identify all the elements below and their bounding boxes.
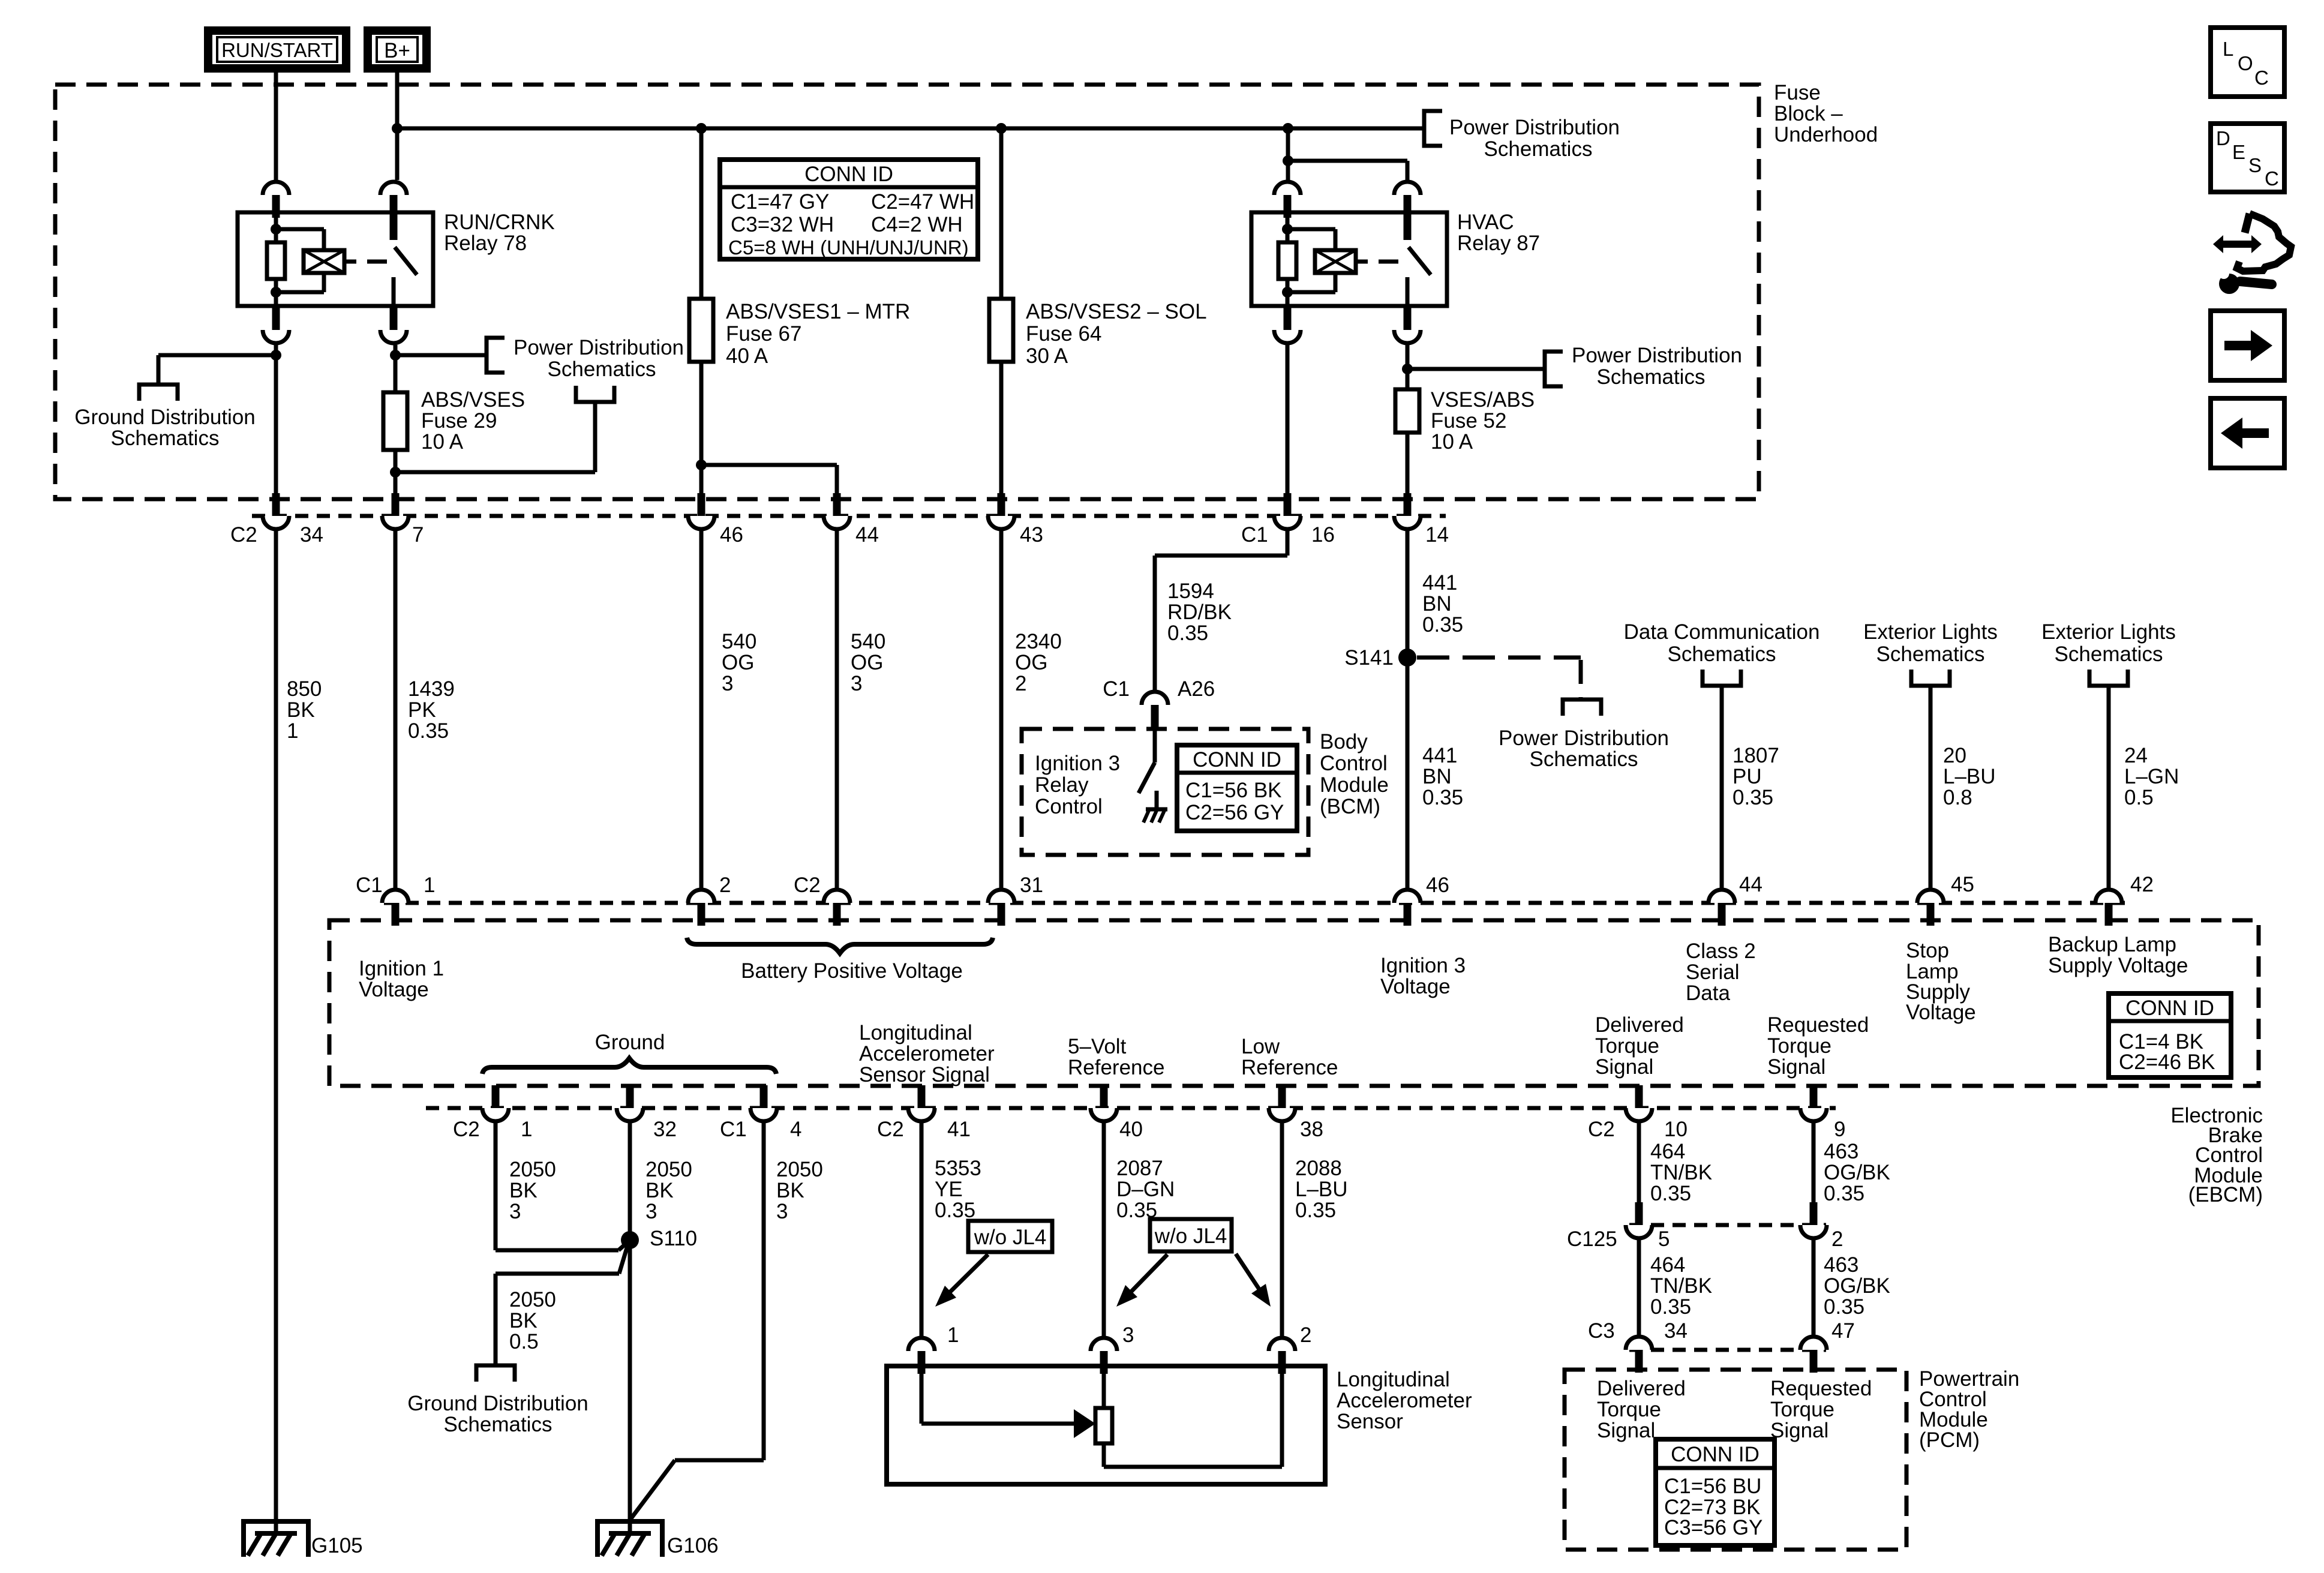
- svg-text:10: 10: [1664, 1118, 1688, 1141]
- svg-text:C3=32 WH: C3=32 WH: [731, 213, 834, 236]
- svg-text:Schematics: Schematics: [1668, 643, 1776, 666]
- off-page ref exterior lights (stop lamp): [1911, 670, 1950, 686]
- svg-text:3: 3: [722, 672, 733, 695]
- svg-text:2088: 2088: [1295, 1157, 1342, 1180]
- svg-text:Module: Module: [1320, 773, 1389, 797]
- BCM switch to ground: [1139, 728, 1157, 808]
- ground G106: [597, 1521, 719, 1557]
- wire 2340 OG: [999, 531, 1004, 888]
- svg-text:Underhood: Underhood: [1774, 123, 1878, 146]
- wire fuse52 down: [1406, 433, 1410, 493]
- connector row2 pin 2: [688, 890, 714, 926]
- connector row2 pin 2b: [824, 890, 850, 926]
- longitudinal accelerometer sensor box: [887, 1366, 1325, 1484]
- label body control module: [1320, 730, 1389, 818]
- connector arc relay78 pin left: [263, 182, 289, 218]
- relay RUN/CRNK 78 box: [238, 212, 433, 306]
- svg-text:0.35: 0.35: [935, 1199, 975, 1222]
- svg-text:Torque: Torque: [1767, 1034, 1831, 1058]
- svg-text:L–BU: L–BU: [1943, 765, 1996, 788]
- wire 540 OG (right): [835, 531, 839, 888]
- svg-text:0.5: 0.5: [509, 1330, 539, 1353]
- svg-text:850: 850: [287, 677, 322, 701]
- svg-text:G105: G105: [311, 1534, 363, 1557]
- svg-text:0.35: 0.35: [1422, 786, 1463, 809]
- svg-text:Low: Low: [1241, 1035, 1280, 1058]
- off-page ref power distribution (S141): [1563, 700, 1601, 716]
- connector row3 pin 1: [482, 1085, 509, 1121]
- svg-text:463: 463: [1824, 1253, 1858, 1277]
- labels C3 pins: [1588, 1319, 1855, 1343]
- label exterior lights schematics (backup): [2041, 620, 2176, 666]
- wire 2087 D-GN: [1102, 1123, 1106, 1336]
- svg-text:ABS/VSES: ABS/VSES: [421, 388, 525, 412]
- svg-text:4: 4: [790, 1118, 801, 1141]
- svg-text:9: 9: [1834, 1118, 1845, 1141]
- connector row2 pin 46: [1394, 890, 1421, 926]
- connector row2 pin 44: [1709, 890, 1735, 926]
- label wire 24 L-GN 0.5: [2124, 744, 2179, 809]
- label wire 2050 BK 0.5: [509, 1288, 556, 1353]
- svg-text:0.5: 0.5: [2124, 786, 2154, 809]
- connector row3 pin 41: [908, 1085, 935, 1121]
- svg-text:w/o JL4: w/o JL4: [1154, 1224, 1227, 1248]
- svg-text:G106: G106: [667, 1534, 719, 1557]
- wire relay78 pin34 down: [271, 345, 281, 493]
- body control module dashed box: [1022, 729, 1308, 855]
- relay78 switch: [390, 212, 418, 306]
- svg-text:10 A: 10 A: [1431, 430, 1473, 454]
- svg-text:Reference: Reference: [1241, 1056, 1338, 1079]
- svg-text:Fuse 29: Fuse 29: [421, 409, 497, 433]
- svg-text:Fuse 64: Fuse 64: [1026, 322, 1101, 346]
- fuse block - underhood dashed box: [55, 85, 1759, 499]
- label wire 463 OG/BK 0.35 (lower): [1824, 1253, 1890, 1319]
- wire 1594 RD/BK: [1155, 531, 1287, 690]
- label data communication schematics: [1624, 620, 1820, 666]
- svg-text:Requested: Requested: [1770, 1377, 1872, 1400]
- label power distribution schematics (S141): [1499, 727, 1669, 771]
- svg-text:Requested: Requested: [1767, 1013, 1869, 1037]
- svg-text:0.35: 0.35: [1295, 1199, 1336, 1222]
- svg-text:BK: BK: [509, 1309, 538, 1332]
- connector arc relay78 out left: [263, 307, 289, 343]
- wire bus to fuse64: [999, 128, 1004, 299]
- svg-text:TN/BK: TN/BK: [1650, 1274, 1712, 1298]
- connector arc relay78 pin right: [380, 182, 407, 218]
- connector row3 pin 4: [750, 1085, 777, 1121]
- electronic brake control module dashed box: [329, 920, 2259, 1086]
- svg-text:Serial: Serial: [1686, 960, 1739, 984]
- label wire 441 BN 0.35 (lower): [1422, 744, 1463, 809]
- powertrain control module dashed box: [1565, 1370, 1906, 1550]
- label wire 1807 PU 0.35: [1733, 744, 1779, 809]
- icon box arrow left: [2211, 398, 2284, 468]
- svg-text:C1: C1: [356, 873, 383, 897]
- svg-text:Block –: Block –: [1774, 102, 1843, 125]
- label wire 463 OG/BK 0.35 (upper): [1824, 1140, 1890, 1205]
- arrow w/o JL4 right-1: [1116, 1254, 1167, 1307]
- svg-text:Ground Distribution: Ground Distribution: [407, 1392, 588, 1415]
- label class 2 serial data: [1686, 939, 1756, 1005]
- label delivered torque signal (PCM): [1597, 1377, 1686, 1442]
- svg-text:46: 46: [1426, 873, 1449, 897]
- svg-text:C2=56 GY: C2=56 GY: [1185, 801, 1284, 824]
- svg-text:ABS/VSES1 – MTR: ABS/VSES1 – MTR: [726, 300, 910, 323]
- label wire 464 TN/BK 0.35 (upper): [1650, 1140, 1712, 1205]
- svg-text:C5=8 WH (UNH/UNJ/UNR): C5=8 WH (UNH/UNJ/UNR): [728, 236, 969, 259]
- svg-text:RUN/CRNK: RUN/CRNK: [444, 211, 555, 234]
- label power distribution schematics (relay87): [1572, 344, 1742, 389]
- svg-text:Control: Control: [1320, 752, 1388, 775]
- label longitudinal accelerometer sensor: [1337, 1368, 1472, 1433]
- label relay HVAC 87: [1457, 211, 1540, 255]
- svg-text:Schematics: Schematics: [1530, 748, 1638, 771]
- svg-text:0.35: 0.35: [408, 719, 449, 743]
- svg-text:(BCM): (BCM): [1320, 795, 1380, 818]
- label wire 850 BK 1: [287, 677, 322, 743]
- svg-text:C4=2 WH: C4=2 WH: [871, 213, 963, 236]
- svg-text:BK: BK: [287, 698, 315, 722]
- svg-text:Delivered: Delivered: [1597, 1377, 1686, 1400]
- svg-text:Voltage: Voltage: [1906, 1001, 1976, 1024]
- flag box w/o JL4 (left): [968, 1221, 1052, 1252]
- svg-text:Backup Lamp: Backup Lamp: [2048, 933, 2176, 956]
- wire 463 OG/BK (lower): [1812, 1240, 1816, 1335]
- connector arc A26: [1142, 692, 1168, 728]
- svg-text:Longitudinal: Longitudinal: [1337, 1368, 1450, 1391]
- svg-text:0.35: 0.35: [1167, 622, 1208, 645]
- svg-text:Power Distribution: Power Distribution: [1499, 727, 1669, 750]
- svg-text:L–BU: L–BU: [1295, 1178, 1348, 1201]
- svg-text:C2: C2: [1588, 1118, 1615, 1141]
- svg-text:C: C: [2265, 167, 2279, 190]
- label wire 2050 BK 3 (pin32): [645, 1158, 692, 1223]
- svg-text:OG: OG: [722, 651, 754, 674]
- label electronic brake control module: [2170, 1104, 2263, 1206]
- labels row3 pins: [453, 1118, 1845, 1141]
- off-page ref power distribution (fuse29): [576, 386, 614, 402]
- label battery positive voltage: [741, 959, 963, 983]
- svg-text:42: 42: [2130, 873, 2154, 896]
- svg-text:2340: 2340: [1015, 630, 1062, 653]
- svg-text:ABS/VSES2 – SOL: ABS/VSES2 – SOL: [1026, 300, 1207, 323]
- svg-text:C2: C2: [230, 523, 257, 547]
- svg-text:CONN ID: CONN ID: [2125, 996, 2214, 1020]
- connector row2 pin 1: [382, 890, 409, 926]
- label low reference: [1241, 1035, 1338, 1079]
- wire 464 TN/BK (upper): [1637, 1123, 1641, 1202]
- svg-text:1439: 1439: [408, 677, 455, 701]
- label requested torque signal (EBCM): [1767, 1013, 1869, 1079]
- svg-text:2050: 2050: [776, 1158, 823, 1181]
- connector row1 pin 43: [988, 493, 1014, 529]
- svg-text:Schematics: Schematics: [1597, 365, 1706, 389]
- wire fuse67 down: [696, 362, 707, 493]
- label wire 2087 D-GN 0.35: [1116, 1157, 1175, 1222]
- svg-text:BK: BK: [776, 1179, 804, 1202]
- power feed box RUN/START: [208, 31, 346, 68]
- svg-text:OG/BK: OG/BK: [1824, 1274, 1890, 1298]
- svg-text:5353: 5353: [935, 1157, 981, 1180]
- svg-text:34: 34: [1664, 1319, 1688, 1343]
- off-page ref ground distribution (S110): [476, 1365, 515, 1382]
- svg-text:34: 34: [300, 523, 323, 547]
- svg-text:Accelerometer: Accelerometer: [859, 1042, 995, 1065]
- svg-text:L–GN: L–GN: [2124, 765, 2179, 788]
- label 5-volt reference: [1068, 1035, 1164, 1079]
- wire fuse29 down: [390, 450, 401, 493]
- label fuse 67: [726, 300, 910, 368]
- svg-text:464: 464: [1650, 1140, 1685, 1163]
- svg-text:Fuse: Fuse: [1774, 81, 1821, 104]
- svg-text:C2=46 BK: C2=46 BK: [2119, 1050, 2215, 1074]
- off-page ref ground distribution: [139, 385, 178, 401]
- labels row1 pins: [230, 523, 1449, 547]
- svg-text:Voltage: Voltage: [359, 978, 429, 1001]
- connector dashed line row1: [252, 514, 1446, 518]
- wire fuse29 bypass to power distribution: [395, 402, 595, 472]
- connector row3 pin 32: [617, 1085, 643, 1121]
- svg-text:C1: C1: [1241, 523, 1268, 547]
- icon box DESC: [2211, 124, 2284, 192]
- svg-text:C2: C2: [794, 873, 821, 897]
- svg-text:RD/BK: RD/BK: [1167, 601, 1232, 624]
- svg-text:OG: OG: [851, 651, 883, 674]
- label wire 5353 YE 0.35: [935, 1157, 981, 1222]
- wire RUN/START down to relay 78: [274, 73, 278, 180]
- svg-text:464: 464: [1650, 1253, 1685, 1277]
- connector C125 pin2: [1800, 1202, 1827, 1238]
- svg-text:CONN ID: CONN ID: [1671, 1443, 1759, 1466]
- connector row3 pin 38: [1269, 1085, 1295, 1121]
- svg-text:C2=47 WH: C2=47 WH: [871, 190, 974, 214]
- svg-text:Signal: Signal: [1767, 1055, 1825, 1079]
- svg-text:D: D: [2216, 127, 2230, 149]
- svg-text:441: 441: [1422, 571, 1457, 595]
- fuse ABS/VSES1 67: [689, 299, 713, 362]
- fuse ABS/VSES 29: [383, 392, 407, 450]
- svg-text:41: 41: [947, 1118, 971, 1141]
- svg-text:0.35: 0.35: [1422, 613, 1463, 637]
- connector row1 pin 44: [824, 493, 850, 529]
- svg-text:CONN ID: CONN ID: [1193, 748, 1281, 772]
- wire bus to fuse67: [699, 128, 704, 299]
- svg-text:24: 24: [2124, 744, 2148, 767]
- svg-text:Schematics: Schematics: [111, 427, 220, 450]
- label ignition 3 voltage: [1380, 954, 1466, 998]
- svg-text:44: 44: [1739, 873, 1762, 896]
- svg-text:A26: A26: [1178, 677, 1215, 701]
- connector arc relay87 out right: [1394, 307, 1421, 343]
- svg-text:2050: 2050: [509, 1288, 556, 1311]
- splice S110: [621, 1227, 697, 1250]
- svg-text:w/o JL4: w/o JL4: [974, 1226, 1047, 1249]
- off-page ref exterior lights (backup): [2089, 670, 2128, 686]
- svg-text:TN/BK: TN/BK: [1650, 1161, 1712, 1184]
- svg-text:32: 32: [653, 1118, 677, 1141]
- svg-text:3: 3: [851, 672, 862, 695]
- svg-text:20: 20: [1943, 744, 1966, 767]
- wire 1807 PU: [1720, 688, 1724, 888]
- connector arc relay87 pin left: [1274, 182, 1301, 218]
- conn id table (EBCM): [2109, 993, 2231, 1077]
- svg-text:Stop: Stop: [1906, 939, 1949, 962]
- svg-text:Reference: Reference: [1068, 1056, 1164, 1079]
- svg-text:B+: B+: [384, 39, 410, 62]
- svg-text:16: 16: [1311, 523, 1335, 547]
- wire 20 L-BU: [1929, 688, 1933, 888]
- svg-text:Signal: Signal: [1595, 1055, 1653, 1079]
- connector arc relay87 pin right: [1394, 182, 1421, 218]
- wire 24 L-GN: [2107, 688, 2111, 888]
- svg-text:C1=56 BK: C1=56 BK: [1185, 779, 1282, 802]
- svg-text:Torque: Torque: [1595, 1034, 1659, 1058]
- svg-text:540: 540: [722, 630, 756, 653]
- labels C1 A26: [1103, 677, 1215, 701]
- svg-text:C125: C125: [1567, 1227, 1617, 1251]
- svg-text:14: 14: [1425, 523, 1449, 547]
- svg-text:VSES/ABS: VSES/ABS: [1431, 388, 1535, 412]
- connector dashed line row3: [426, 1106, 1836, 1110]
- svg-text:40: 40: [1119, 1118, 1143, 1141]
- svg-text:BK: BK: [645, 1179, 674, 1202]
- svg-text:Battery Positive Voltage: Battery Positive Voltage: [741, 959, 963, 983]
- off-page ref power distribution (top right): [1424, 111, 1442, 146]
- svg-text:RUN/START: RUN/START: [221, 39, 333, 61]
- svg-text:2: 2: [1831, 1227, 1843, 1251]
- connector dashed line C3: [1629, 1348, 1826, 1352]
- svg-text:PK: PK: [408, 698, 436, 722]
- svg-text:L: L: [2223, 38, 2233, 60]
- svg-text:Ignition 1: Ignition 1: [359, 957, 444, 980]
- connector arc relay87 out left: [1274, 307, 1301, 343]
- arrow w/o JL4 left: [935, 1254, 988, 1307]
- svg-text:3: 3: [1122, 1323, 1134, 1347]
- svg-text:C2: C2: [453, 1118, 480, 1141]
- wire 1439 PK: [394, 531, 398, 888]
- relay87 coil solenoid: [1287, 229, 1398, 292]
- svg-text:Longitudinal: Longitudinal: [859, 1021, 972, 1044]
- svg-text:Schematics: Schematics: [548, 358, 656, 381]
- svg-text:2: 2: [719, 873, 731, 897]
- wire bus to HVAC relay pins: [1283, 128, 1407, 180]
- svg-text:C1: C1: [1103, 677, 1130, 701]
- label ground distribution schematics (top left): [74, 406, 256, 450]
- wire branch to ground distribution: [158, 355, 276, 385]
- label powertrain control module: [1919, 1367, 2019, 1452]
- icon box arrow right: [2211, 311, 2284, 380]
- wire 463 OG/BK (upper): [1812, 1123, 1816, 1202]
- icon box LOC: [2211, 28, 2284, 97]
- svg-text:Relay 78: Relay 78: [444, 232, 527, 255]
- svg-text:S110: S110: [650, 1227, 697, 1250]
- connector row1 pin 14: [1394, 493, 1421, 529]
- svg-text:30 A: 30 A: [1026, 344, 1068, 368]
- svg-text:Torque: Torque: [1770, 1398, 1834, 1421]
- svg-text:5–Volt: 5–Volt: [1068, 1035, 1127, 1058]
- connector row3 pin 9: [1800, 1085, 1827, 1121]
- label wire 2340 OG 2: [1015, 630, 1062, 695]
- off-page ref data communication: [1703, 670, 1741, 686]
- relay78 coil resistor: [267, 212, 285, 306]
- svg-text:D–GN: D–GN: [1116, 1178, 1175, 1201]
- wire branch to pin44: [701, 465, 837, 493]
- brace ground: [482, 1058, 776, 1074]
- wire B+ down and main bus: [392, 73, 1422, 180]
- svg-text:CONN ID: CONN ID: [804, 163, 893, 186]
- svg-text:Fuse 52: Fuse 52: [1431, 409, 1506, 433]
- connector row2 pin 42: [2095, 890, 2122, 926]
- svg-text:C1=56 BU: C1=56 BU: [1664, 1475, 1761, 1498]
- svg-text:1: 1: [424, 873, 435, 897]
- svg-text:Exterior Lights: Exterior Lights: [2041, 620, 2176, 644]
- svg-text:C1: C1: [720, 1118, 747, 1141]
- svg-text:E: E: [2232, 141, 2245, 163]
- connector C3 pin34: [1626, 1337, 1652, 1373]
- wire 2050 BK pin32 (to G106): [628, 1123, 632, 1533]
- svg-text:Torque: Torque: [1597, 1398, 1661, 1421]
- label wire 2050 BK 3 (pin4): [776, 1158, 823, 1223]
- svg-text:BK: BK: [509, 1179, 538, 1202]
- svg-text:0.35: 0.35: [1650, 1182, 1691, 1205]
- svg-text:BN: BN: [1422, 765, 1452, 788]
- label requested torque signal (PCM): [1770, 1377, 1872, 1442]
- svg-text:Sensor: Sensor: [1337, 1410, 1403, 1433]
- wire 2088 L-BU: [1280, 1123, 1284, 1336]
- label longitudinal accelerometer sensor signal: [859, 1021, 995, 1086]
- connector C3 pin47: [1800, 1337, 1827, 1373]
- svg-text:46: 46: [720, 523, 743, 547]
- svg-text:Sensor Signal: Sensor Signal: [859, 1063, 990, 1086]
- svg-text:Ignition 3: Ignition 3: [1380, 954, 1466, 977]
- svg-text:Body: Body: [1320, 730, 1368, 754]
- wire branch to power distribution (relay87): [1407, 367, 1545, 371]
- label wire 540 OG 3 (right): [851, 630, 885, 695]
- icon vehicle with wrench: [2213, 214, 2291, 294]
- svg-text:Data Communication: Data Communication: [1624, 620, 1820, 644]
- label exterior lights schematics (stop lamp): [1863, 620, 1998, 666]
- svg-text:Relay 87: Relay 87: [1457, 232, 1540, 255]
- wire relay87 right out down: [1402, 345, 1413, 389]
- svg-text:0.35: 0.35: [1824, 1295, 1864, 1319]
- svg-text:2050: 2050: [509, 1158, 556, 1181]
- svg-text:C3=56 GY: C3=56 GY: [1664, 1516, 1762, 1539]
- svg-text:Schematics: Schematics: [1484, 137, 1593, 161]
- off-page ref power distribution (relay87): [1545, 352, 1563, 386]
- splice S141: [1344, 646, 1416, 670]
- wire S110 to ground distribution: [496, 1242, 629, 1365]
- label ground distribution schematics (bottom): [407, 1392, 588, 1436]
- label wire 464 TN/BK 0.35 (lower): [1650, 1253, 1712, 1319]
- brace battery positive voltage: [687, 938, 993, 953]
- label ground: [595, 1031, 665, 1054]
- connector dashed line C125: [1629, 1223, 1826, 1227]
- connector row1 pin 34: [263, 493, 289, 529]
- connector arc relay78 out right: [380, 307, 407, 343]
- conn id table (PCM): [1656, 1439, 1774, 1545]
- svg-text:(EBCM): (EBCM): [2188, 1183, 2263, 1206]
- svg-text:1594: 1594: [1167, 580, 1214, 603]
- svg-text:1: 1: [521, 1118, 532, 1141]
- connector row2 pin 31: [988, 890, 1014, 926]
- connector row1 pin 46: [688, 493, 714, 529]
- sensor potentiometer: [1095, 1374, 1282, 1467]
- svg-text:3: 3: [776, 1200, 788, 1223]
- svg-text:2050: 2050: [645, 1158, 692, 1181]
- relay78 coil solenoid: [276, 229, 387, 292]
- connector row2 pin 45: [1917, 890, 1944, 926]
